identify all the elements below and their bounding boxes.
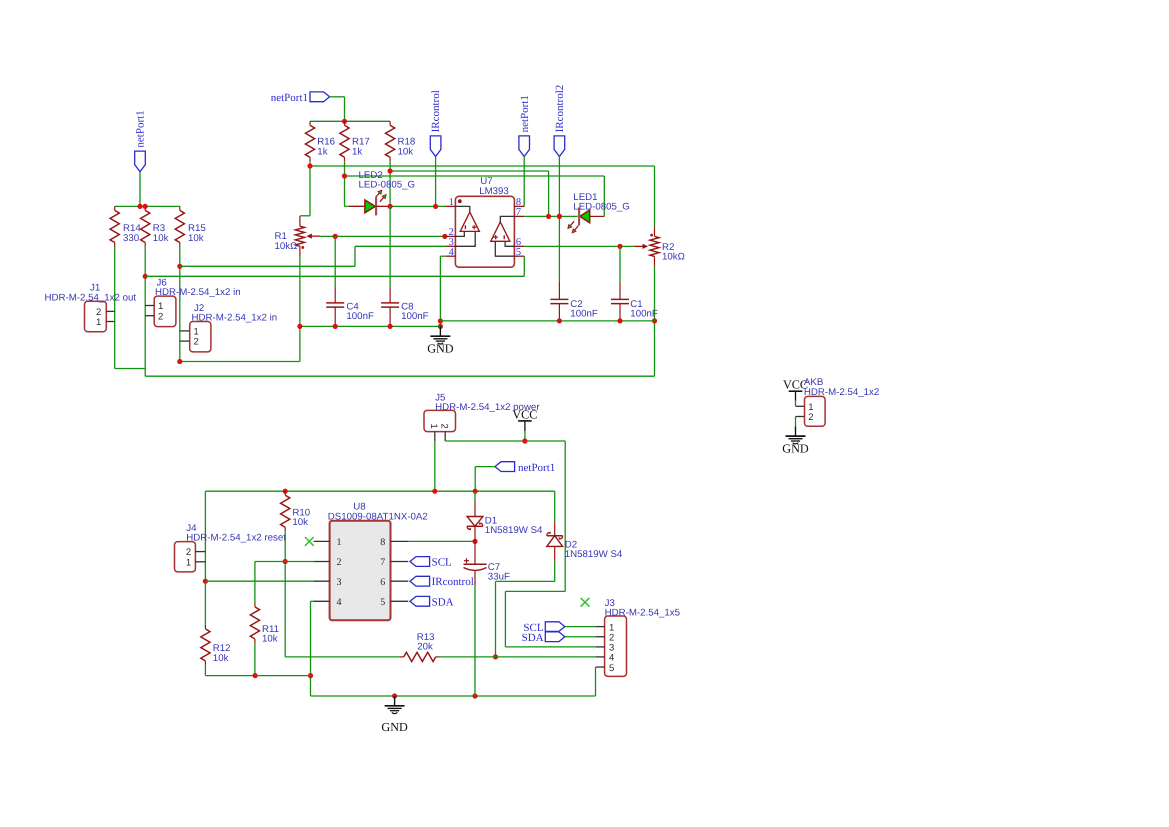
svg-text:10k: 10k: [213, 653, 229, 664]
svg-text:netPort1: netPort1: [518, 462, 555, 474]
svg-text:2: 2: [808, 412, 813, 423]
svg-text:10k: 10k: [292, 517, 308, 528]
svg-text:GND: GND: [381, 720, 408, 734]
svg-text:330: 330: [123, 233, 140, 244]
svg-text:HDR-M-2.54_1x2 in: HDR-M-2.54_1x2 in: [155, 287, 241, 298]
svg-text:VCC: VCC: [512, 407, 537, 421]
svg-text:100nF: 100nF: [401, 311, 429, 322]
svg-text:LM393: LM393: [479, 186, 509, 197]
svg-text:1: 1: [449, 197, 454, 208]
svg-text:IRcontrol: IRcontrol: [432, 576, 474, 588]
svg-text:HDR-M-2.54_1x2 in: HDR-M-2.54_1x2 in: [192, 313, 278, 324]
svg-text:7: 7: [516, 207, 521, 218]
svg-text:10k: 10k: [262, 634, 278, 645]
svg-text:5: 5: [380, 597, 385, 608]
svg-text:netPort1: netPort1: [135, 110, 147, 147]
svg-text:1N5819W S4: 1N5819W S4: [485, 525, 543, 536]
svg-text:1: 1: [337, 537, 342, 548]
svg-text:HDR-M-2.54_1x2: HDR-M-2.54_1x2: [804, 387, 879, 398]
svg-text:10kΩ: 10kΩ: [275, 241, 298, 252]
svg-text:IRcontrol: IRcontrol: [430, 90, 442, 132]
svg-text:100nF: 100nF: [346, 311, 374, 322]
svg-text:LED-0805_G: LED-0805_G: [573, 202, 630, 213]
svg-text:1k: 1k: [352, 146, 362, 157]
svg-text:2: 2: [439, 424, 450, 429]
svg-text:10kΩ: 10kΩ: [662, 252, 685, 263]
svg-text:20k: 20k: [417, 642, 433, 653]
svg-text:10k: 10k: [153, 233, 169, 244]
svg-text:GND: GND: [427, 341, 454, 355]
svg-text:1: 1: [428, 424, 439, 429]
svg-text:6: 6: [380, 577, 385, 588]
svg-text:8: 8: [380, 537, 385, 548]
svg-text:GND: GND: [782, 441, 809, 455]
svg-text:3: 3: [337, 577, 342, 588]
svg-text:LED-0805_G: LED-0805_G: [359, 180, 416, 191]
svg-text:4: 4: [449, 247, 455, 258]
svg-text:1k: 1k: [317, 146, 327, 157]
svg-text:HDR-M-2.54_1x2 out: HDR-M-2.54_1x2 out: [45, 292, 137, 303]
svg-text:1: 1: [96, 317, 101, 328]
svg-text:1: 1: [186, 557, 191, 568]
svg-text:7: 7: [380, 557, 385, 568]
svg-text:1N5819W S4: 1N5819W S4: [565, 549, 623, 560]
svg-text:SDA: SDA: [432, 596, 454, 608]
svg-text:IRcontrol2: IRcontrol2: [554, 85, 566, 133]
svg-text:SCL: SCL: [432, 557, 452, 569]
svg-text:10k: 10k: [398, 146, 414, 157]
svg-text:DS1009-08AT1NX-0A2: DS1009-08AT1NX-0A2: [328, 512, 428, 523]
svg-text:2: 2: [158, 311, 163, 322]
svg-text:SDA: SDA: [522, 632, 544, 644]
svg-text:netPort1: netPort1: [519, 95, 531, 132]
svg-text:2: 2: [194, 337, 199, 348]
svg-text:HDR-M-2.54_1x5: HDR-M-2.54_1x5: [605, 608, 680, 619]
svg-text:5: 5: [516, 247, 521, 258]
svg-text:100nF: 100nF: [630, 309, 658, 320]
svg-text:netPort1: netPort1: [271, 92, 308, 104]
svg-text:2: 2: [337, 557, 342, 568]
svg-text:10k: 10k: [188, 233, 204, 244]
svg-text:100nF: 100nF: [570, 309, 598, 320]
svg-text:HDR-M-2.54_1x2 reset: HDR-M-2.54_1x2 reset: [186, 533, 286, 544]
svg-text:5: 5: [609, 663, 614, 674]
svg-text:4: 4: [337, 597, 342, 608]
